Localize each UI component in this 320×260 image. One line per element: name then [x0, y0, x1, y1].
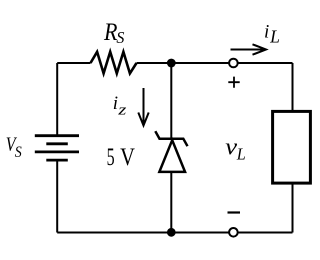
battery V_S plate 2 (short) [46, 142, 68, 145]
label + [228, 77, 239, 88]
zener diode D1 cathode bar with wings [155, 131, 187, 146]
arrow i_z [143, 88, 145, 124]
terminal top (open circle) [229, 59, 238, 68]
battery V_S plate 3 (long) [35, 150, 79, 153]
svg-text:i: i [113, 93, 118, 114]
wire right vertical bottom [292, 184, 294, 233]
svg-text:v: v [225, 135, 237, 161]
load resistor RL (rectangle) [273, 111, 311, 183]
battery V_S plate 4 (short) [46, 159, 68, 162]
svg-text:V: V [120, 144, 135, 171]
resistor R_S [91, 52, 137, 74]
battery V_S plate 1 (long) [35, 134, 79, 137]
svg-text:L: L [236, 145, 246, 164]
svg-text:i: i [264, 22, 269, 43]
zener diode D1 triangle (anode) [159, 140, 185, 172]
wire right vertical top [292, 63, 294, 111]
wire middle vertical bottom (zener to node B) [170, 172, 172, 233]
svg-text:5: 5 [107, 144, 115, 171]
arrow i_L [231, 49, 265, 51]
wire left vertical bottom [56, 160, 58, 232]
wire top node to right corner [171, 62, 292, 64]
wire bottom horizontal [57, 232, 292, 234]
terminal bottom (open circle) [229, 228, 238, 237]
label minus [228, 211, 241, 213]
wire Rs to top node [137, 62, 172, 64]
wire left vertical top [56, 63, 58, 136]
svg-text:S: S [116, 28, 124, 47]
node A (top junction dot) [167, 59, 176, 68]
node B (bottom junction dot) [167, 228, 176, 237]
svg-text:z: z [117, 103, 127, 119]
svg-text:L: L [269, 27, 280, 47]
svg-text:S: S [15, 144, 22, 161]
wire top-left horizontal (Vs top to Rs) [57, 62, 90, 64]
wire middle vertical top (node A to zener) [170, 63, 172, 139]
svg-text:R: R [103, 19, 117, 46]
